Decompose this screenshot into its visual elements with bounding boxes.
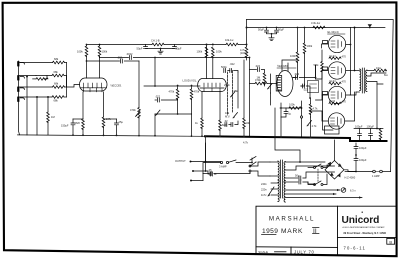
presence resistor 4.7k — [310, 98, 312, 104]
svg-text:470k: 470k — [194, 90, 200, 94]
svg-text:8Ω: 8Ω — [384, 73, 387, 77]
cap .0022 — [130, 56, 132, 60]
resistor 3.3k 2W — [313, 26, 325, 29]
rail step up — [238, 20, 247, 45]
V3 plate wires up — [282, 60, 297, 71]
resistor 1M J2 — [36, 78, 48, 81]
svg-text:4.7k: 4.7k — [243, 141, 249, 145]
volume pot 470k left — [177, 86, 179, 90]
svg-text:.002: .002 — [117, 55, 123, 59]
rail ticks — [72, 134, 74, 136]
svg-text:4.7k: 4.7k — [313, 107, 319, 111]
heater ground symbol — [341, 188, 346, 193]
power tube V4 EL34 — [328, 35, 345, 52]
filter cap .02 right — [174, 45, 176, 47]
bleeder resistor — [380, 139, 382, 141]
resistor 100k plate V2a — [205, 47, 208, 58]
OT primary winding — [360, 69, 361, 91]
mains feed wires — [205, 137, 207, 162]
svg-text:3.3k-2w: 3.3k-2w — [311, 21, 320, 25]
cathode resistor 2.7k V1b — [103, 92, 105, 117]
jack line 2 — [192, 170, 194, 172]
filter cap 100uF upper — [355, 143, 357, 147]
pot bottoms join — [155, 113, 192, 115]
wire jack3 — [20, 86, 53, 88]
svg-text:B: B — [389, 239, 392, 244]
svg-text:6.3 v: 6.3 v — [350, 189, 356, 193]
treble column — [227, 72, 229, 115]
wiper arrow — [136, 111, 141, 117]
revision box B — [387, 238, 395, 244]
V6 grid stopper — [316, 95, 329, 100]
cathode bypass cap 25uF — [116, 119, 118, 123]
svg-text:.022: .022 — [294, 72, 300, 76]
svg-text:820: 820 — [222, 123, 227, 127]
bias network box — [308, 81, 319, 93]
jack line 3 — [190, 180, 192, 182]
wire jack2 — [20, 75, 37, 77]
bass resistor 10k — [243, 60, 245, 118]
tone wiper arrow — [231, 92, 236, 98]
resistor 68k J2 — [36, 75, 52, 77]
slope caps 500pF + .022 — [224, 69, 226, 73]
svg-text:Unicord: Unicord — [342, 215, 380, 226]
svg-text:70-6-11: 70-6-11 — [344, 245, 367, 250]
drop to PT — [275, 137, 300, 162]
resistor 100k plate V1b — [99, 45, 101, 47]
caps above thick bar — [359, 136, 361, 142]
svg-text:50µF: 50µF — [278, 28, 284, 32]
svg-text:100µF: 100µF — [355, 125, 363, 129]
screen resistor row V5 — [329, 82, 341, 85]
svg-text:.05: .05 — [208, 168, 212, 172]
PT primary winding — [278, 161, 279, 183]
screen resistor row V6 — [329, 102, 341, 105]
shunt vertical 2 — [36, 97, 38, 135]
svg-text:117v: 117v — [261, 193, 267, 197]
bias caps 50uF — [299, 176, 301, 180]
svg-text:68k: 68k — [54, 70, 59, 74]
resistor 1M grid leak — [47, 97, 49, 112]
resistor 68k J3 — [53, 86, 65, 89]
svg-text:M.V.: M.V. — [225, 114, 230, 118]
ground bus wire — [19, 61, 20, 135]
svg-text:250k: 250k — [224, 83, 230, 87]
input jack J3 contact — [17, 87, 19, 92]
arrow symbol on rail — [368, 24, 372, 27]
svg-text:16Ω: 16Ω — [376, 66, 381, 70]
power tube V6 EL34 — [328, 86, 345, 103]
svg-text:500p: 500p — [221, 65, 227, 69]
bias box — [325, 126, 340, 134]
drop to rail — [191, 114, 193, 136]
V7 grid wire — [310, 111, 328, 121]
MV pot arrow — [233, 113, 238, 119]
svg-text:100k: 100k — [307, 44, 313, 48]
main ground rail thin — [18, 135, 206, 136]
speaker line down — [376, 84, 378, 128]
svg-text:68k: 68k — [54, 99, 59, 103]
PT core — [280, 160, 282, 198]
svg-text:.022: .022 — [155, 95, 161, 99]
svg-text:50µ: 50µ — [295, 173, 300, 177]
svg-text:470k: 470k — [255, 78, 261, 82]
V1 internal pins — [84, 83, 103, 92]
small cap on selector — [206, 171, 210, 174]
main rail thick — [205, 136, 387, 141]
svg-text:50µF: 50µF — [137, 47, 143, 51]
svg-text:½ECC83.: ½ECC83. — [110, 84, 122, 88]
pot wiper arrow — [156, 110, 161, 116]
volume pot 470k right — [191, 86, 193, 90]
svg-text:100µF: 100µF — [359, 158, 367, 162]
svg-text:100µF: 100µF — [359, 146, 367, 150]
long vertical x155 to rail — [154, 114, 156, 136]
OT secondary winding — [366, 70, 367, 92]
svg-text:.022: .022 — [255, 64, 261, 68]
OT core — [361, 68, 363, 93]
volume wire — [144, 85, 200, 87]
svg-text:A GULF+WESTERN MANUFACTURING C: A GULF+WESTERN MANUFACTURING COMPANY — [343, 226, 386, 229]
svg-text:MARSHALL: MARSHALL — [269, 216, 315, 223]
svg-text:50µF: 50µF — [176, 47, 182, 51]
bridge right to fuse — [344, 170, 373, 172]
svg-text:100k: 100k — [77, 50, 83, 54]
tap selector arrow — [268, 187, 274, 196]
mid column — [232, 71, 234, 113]
OT connections — [355, 70, 360, 72]
power tube V5 EL34 — [328, 62, 345, 79]
svg-text:100µF: 100µF — [367, 125, 375, 129]
grid resistor 1M PI — [263, 73, 266, 84]
vertical left x281 — [280, 103, 282, 137]
coupling cap upper .022 — [293, 77, 295, 79]
svg-text:470: 470 — [342, 54, 347, 58]
V2 cathode 2 — [219, 92, 221, 121]
top tie of caps — [354, 128, 383, 130]
svg-text:1959: 1959 — [262, 228, 278, 235]
heater taps — [285, 189, 340, 191]
bright cap .022 — [155, 99, 157, 101]
svg-text:1M: 1M — [51, 115, 55, 119]
svg-text:.1µ: .1µ — [288, 112, 292, 116]
shunt vertical 1 — [26, 77, 28, 136]
svg-text:470: 470 — [342, 100, 347, 104]
wire jack1 — [20, 62, 53, 64]
input jack J1 contact — [17, 61, 19, 66]
svg-text:SCALE: SCALE — [258, 250, 268, 254]
resistor 68k J1 — [53, 61, 65, 64]
svg-text:MARK: MARK — [281, 228, 303, 235]
svg-text:100k: 100k — [216, 50, 222, 54]
svg-text:JULY 70: JULY 70 — [294, 249, 315, 254]
svg-text:820: 820 — [76, 121, 81, 125]
V2 internal pins — [204, 83, 220, 92]
input jack J2 contact — [17, 75, 19, 80]
bridge top to thick bar — [334, 140, 336, 161]
decoupling resistor 10k — [152, 43, 164, 46]
cathode resistor 820 V1 — [82, 92, 84, 119]
NFB switch contact — [301, 101, 303, 108]
secondary taps HT — [285, 161, 300, 163]
grid resistor 470k (bright ch) — [138, 61, 140, 108]
DPST switch right — [315, 164, 321, 168]
svg-text:68k: 68k — [54, 81, 59, 85]
grid feed upper — [315, 65, 317, 79]
cap .002 — [121, 59, 123, 63]
B+ rail segment A — [88, 44, 153, 46]
bias line vertical — [323, 95, 333, 130]
svg-text:100k: 100k — [102, 50, 108, 54]
plate bus left pair — [346, 45, 351, 96]
jack line 1 — [190, 161, 192, 163]
standby contact — [251, 158, 253, 163]
tube V3 envelope — [277, 71, 293, 97]
switch levers to PT — [250, 162, 256, 166]
primary taps — [270, 161, 278, 163]
ground sym under rail — [160, 49, 162, 51]
svg-text:150µF: 150µF — [61, 124, 69, 128]
jack tip hooks — [20, 63, 24, 100]
svg-text:25µ: 25µ — [119, 120, 124, 124]
ground sym — [271, 34, 273, 37]
tone bottom caps — [225, 123, 227, 127]
filter cap 100uF lower — [354, 159, 358, 161]
svg-text:LOUD./VOL.: LOUD./VOL. — [183, 79, 198, 83]
cathode cap 150uF — [72, 119, 74, 123]
svg-text:.022: .022 — [230, 62, 236, 66]
svg-text:470: 470 — [342, 80, 347, 84]
coupling cap lower .022 — [300, 85, 303, 87]
svg-text:100k: 100k — [197, 50, 203, 54]
tube V1 ECC83 envelope — [80, 78, 108, 91]
filter cap .02 left — [145, 45, 147, 47]
wire grid to V1 — [67, 85, 80, 88]
power tube V7 EL34 — [328, 113, 344, 129]
NFB resistor — [289, 107, 301, 110]
wire into V3 grid — [250, 83, 256, 85]
svg-text:89 Frost Street · Westbury, N.: 89 Frost Street · Westbury, N.Y. 11590 — [344, 232, 387, 235]
svg-text:.02: .02 — [224, 119, 228, 123]
svg-text:3 AMP: 3 AMP — [219, 165, 227, 169]
PI tail pot arrow — [268, 84, 273, 90]
plate loads to rail: vertical x297 — [297, 28, 299, 53]
resistor 100k plate V2b — [212, 47, 215, 58]
grid resistor 5.6k — [321, 50, 323, 62]
resistor 10k-1W rail — [226, 43, 238, 46]
svg-text:(100k): (100k) — [240, 51, 247, 55]
input jack J4 contact — [17, 97, 19, 102]
svg-text:4.7k: 4.7k — [312, 124, 318, 128]
svg-text:H.Z 4000: H.Z 4000 — [345, 175, 356, 179]
svg-text:EL34: EL34 — [330, 54, 337, 58]
V3 internal structure — [276, 76, 282, 92]
filter caps 50uF+50uF — [266, 28, 268, 31]
svg-text:100k: 100k — [290, 54, 296, 58]
V5 grid stopper — [316, 71, 329, 80]
plate bus right pair — [346, 70, 355, 72]
svg-text:½ECC83: ½ECC83 — [277, 64, 288, 68]
svg-text:50µF: 50µF — [258, 28, 264, 32]
title block outline — [256, 206, 396, 255]
svg-text:470k: 470k — [130, 108, 136, 112]
svg-text:220v: 220v — [261, 188, 267, 192]
node dots input — [26, 76, 28, 78]
tube V2 ECC83 envelope — [198, 79, 227, 92]
bridge rectifier BR1 — [325, 161, 344, 180]
selector vertical — [205, 143, 207, 171]
svg-text:CH.1-B: CH.1-B — [151, 39, 160, 43]
coupling wire V1a — [100, 57, 129, 59]
V4 grid stopper — [322, 44, 329, 48]
long vertical x249 — [249, 58, 251, 137]
svg-text:EL34: EL34 — [329, 99, 336, 103]
svg-text:10k: 10k — [225, 111, 230, 115]
resistor 68k J4 — [52, 96, 64, 99]
vertical x302.5 — [304, 28, 306, 44]
svg-text:100k: 100k — [289, 102, 295, 106]
svg-text:.0022: .0022 — [126, 52, 133, 56]
screen node resistor 4.7k vertical — [246, 45, 248, 48]
mains switch S1 — [205, 162, 221, 164]
NFB wire — [280, 107, 302, 109]
resistor 100k plate V1a — [86, 45, 88, 47]
plate wires V2 — [206, 45, 208, 79]
fuse F1 — [373, 170, 376, 173]
tail vertical — [270, 74, 272, 93]
grid tie vertical — [66, 63, 68, 88]
svg-text:EL34: EL34 — [330, 79, 337, 83]
coupling wire V1b lower — [87, 60, 120, 62]
NFB cap — [285, 108, 287, 112]
mid rail B — [247, 27, 386, 29]
svg-text:5.6k: 5.6k — [314, 63, 320, 67]
svg-text:1 AMP: 1 AMP — [372, 174, 380, 178]
bass column — [237, 72, 239, 108]
svg-text:10k-1w: 10k-1w — [225, 38, 233, 42]
svg-text:470k: 470k — [169, 90, 175, 94]
cathode V3 to rail — [274, 108, 276, 137]
svg-text:EL 34(x4): EL 34(x4) — [328, 30, 339, 34]
PT secondary winding — [284, 162, 285, 184]
top rail to right frame — [247, 20, 394, 172]
plate wire V1b — [99, 58, 101, 79]
junction dot — [354, 27, 356, 29]
cap .05 mains — [203, 173, 209, 175]
secondary taps — [367, 70, 374, 72]
long wire y57.5 — [155, 57, 249, 59]
wire jack4 — [20, 96, 53, 98]
svg-text:68k: 68k — [54, 57, 59, 61]
svg-text:240v: 240v — [261, 182, 267, 186]
plate wire V1a — [86, 61, 88, 78]
screen resistor row V4 — [329, 57, 341, 60]
V2 cathode resistor — [201, 92, 203, 119]
svg-text:OUTPUT: OUTPUT — [175, 159, 186, 163]
presence pot — [307, 121, 312, 127]
cap .022 to PI — [250, 69, 257, 71]
